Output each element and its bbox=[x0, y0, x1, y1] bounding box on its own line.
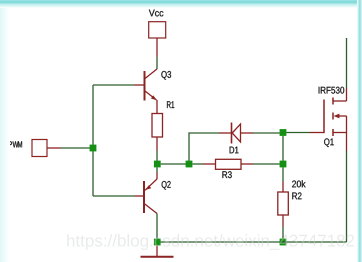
junction node D bbox=[280, 161, 287, 168]
wire R3 to node D bbox=[253, 163, 280, 165]
wire node B up to D1 anode bbox=[189, 133, 219, 161]
wire Q3 base bbox=[93, 84, 135, 86]
port Vcc bbox=[149, 10, 166, 57]
wire bottom rail bbox=[161, 241, 347, 243]
wire base net vertical bbox=[92, 85, 94, 196]
resistor R2 bbox=[278, 180, 306, 226]
wire node C to node D bbox=[282, 136, 284, 161]
ground bbox=[141, 245, 174, 256]
junction node A bbox=[154, 161, 161, 168]
mosfet Q1 IRF530 bbox=[310, 87, 347, 151]
junction node B bbox=[186, 161, 193, 168]
wire node C to Q1 gate bbox=[286, 132, 310, 134]
wire node D to R2 bbox=[282, 168, 284, 183]
diode D1 bbox=[219, 123, 253, 154]
transistor Q3 bbox=[135, 69, 172, 114]
watermark bbox=[67, 234, 354, 250]
junction node E bbox=[280, 239, 287, 246]
wire node A to node B bbox=[161, 163, 186, 165]
wire Q1 drain up bbox=[346, 38, 348, 88]
wire node B to R3 bbox=[193, 163, 204, 165]
wire Q2 collector to node F bbox=[156, 214, 158, 239]
resistor R1 bbox=[152, 101, 174, 150]
port PWM bbox=[8, 140, 60, 157]
wire PWM to base net bbox=[61, 147, 94, 149]
wire Vcc to Q3 collector bbox=[156, 57, 158, 70]
junction PWM node bbox=[90, 145, 97, 152]
junction node F bbox=[154, 239, 161, 246]
wire Q1 source down bbox=[346, 151, 348, 242]
junction node C bbox=[280, 129, 287, 136]
wire R2 to node E bbox=[282, 227, 284, 239]
wire node A to Q2 emitter bbox=[156, 168, 158, 173]
wire Q2 base bbox=[93, 195, 135, 197]
resistor R3 bbox=[203, 159, 253, 178]
wire R1 to node A bbox=[156, 151, 158, 162]
wire D1 to node C bbox=[253, 132, 280, 134]
transistor Q2 bbox=[135, 172, 171, 214]
